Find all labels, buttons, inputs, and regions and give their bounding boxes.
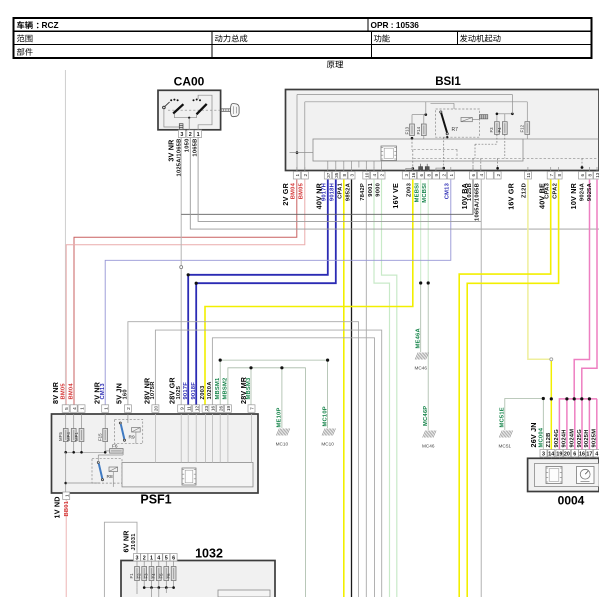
svg-text:1050: 1050 (185, 139, 191, 153)
svg-text:9: 9 (179, 407, 184, 410)
svg-text:7842P: 7842P (360, 183, 366, 201)
wire 9852A (351, 180, 353, 597)
CA00 right switch (193, 99, 195, 101)
0004 inner connector box (535, 464, 599, 487)
svg-text:MF1: MF1 (74, 432, 79, 441)
svg-text:MF5: MF5 (58, 432, 63, 441)
wire 1065A/1065B (480, 180, 482, 597)
svg-text:2: 2 (303, 174, 308, 177)
svg-text:F4: F4 (497, 127, 502, 133)
wire 1025 vertical CA00 pin3 to PSF1 pin9 (180, 137, 182, 405)
wire Z12D (528, 180, 551, 360)
svg-text:9025H: 9025H (584, 429, 590, 447)
PSF1 left drop to bottom pin (65, 452, 67, 492)
svg-text:7: 7 (549, 174, 554, 177)
svg-text:F3: F3 (489, 127, 494, 133)
wire MBSM2 / MBSM3 / ME10P (228, 368, 306, 597)
svg-text:9024M: 9024M (570, 429, 576, 448)
svg-text:23: 23 (204, 406, 209, 412)
relay R9 (115, 419, 143, 443)
svg-text:BM05: BM05 (60, 383, 66, 400)
wire CM13 (105, 180, 451, 405)
ground ME10P/MC10 (276, 429, 290, 436)
svg-text:1025A/1065B: 1025A/1065B (176, 139, 182, 177)
wire MC46P to ground (427, 283, 429, 430)
svg-text:8: 8 (557, 174, 562, 177)
svg-text:11: 11 (526, 172, 531, 177)
ground ME46A/MC46 (415, 353, 429, 360)
svg-text:13: 13 (595, 172, 599, 178)
svg-text:RCZ: RCZ (42, 20, 59, 30)
fuse F14 (421, 124, 426, 136)
wire J1031 (104, 522, 137, 597)
svg-text:2: 2 (496, 174, 501, 177)
wire CPA1 (343, 180, 345, 597)
svg-text:MC51: MC51 (499, 444, 512, 449)
wire BB01 (65, 499, 67, 597)
PSF1 bottom pin 1 (63, 492, 70, 500)
svg-text:R7: R7 (452, 127, 459, 133)
wire 9025A (582, 180, 597, 399)
wire 1050 (190, 137, 599, 230)
BSI1 internal rails (297, 94, 512, 96)
svg-text:MCBSI: MCBSI (422, 183, 428, 203)
svg-text:Z12B: Z12B (546, 433, 552, 448)
svg-text:3: 3 (404, 174, 409, 177)
PSF1 internal connector box (122, 463, 253, 487)
svg-text:14: 14 (548, 451, 554, 457)
svg-text:Z12D: Z12D (522, 183, 528, 198)
svg-text:1: 1 (80, 407, 85, 410)
wire MC51E / MC004 (505, 399, 544, 431)
svg-text:4: 4 (372, 174, 377, 177)
svg-text:1025B: 1025B (467, 183, 473, 201)
wire 1065B (198, 137, 481, 222)
svg-text:9018F: 9018F (191, 382, 197, 400)
svg-text:8V NR: 8V NR (51, 381, 60, 404)
svg-text:6: 6 (580, 174, 585, 177)
svg-text:F2: F2 (136, 573, 141, 579)
relay R7 (436, 109, 480, 137)
svg-text:10V NR: 10V NR (569, 182, 578, 209)
svg-text:16V GR: 16V GR (506, 182, 515, 209)
svg-text:20: 20 (154, 406, 159, 412)
svg-text:MBSM1: MBSM1 (215, 377, 221, 400)
wire Z12B (550, 359, 552, 449)
svg-text:11: 11 (186, 406, 191, 411)
key symbol (221, 109, 230, 112)
svg-text:1V ND: 1V ND (53, 496, 62, 518)
ground MC51E/MC51 (499, 431, 513, 438)
svg-text:F4: F4 (151, 573, 156, 579)
svg-text:1: 1 (64, 494, 69, 497)
svg-text:MBSM2: MBSM2 (223, 378, 229, 400)
0004 gauge symbol (577, 467, 595, 484)
svg-text:1: 1 (449, 174, 454, 177)
svg-text:F13: F13 (404, 126, 409, 134)
svg-text:MC51E: MC51E (500, 407, 506, 427)
svg-text:6: 6 (471, 174, 476, 177)
inline connector circles (180, 266, 183, 269)
svg-text:2: 2 (126, 407, 131, 410)
svg-text:6: 6 (573, 451, 576, 457)
svg-text:9018H: 9018H (330, 183, 336, 201)
BSI1 solid rail right (523, 138, 599, 140)
svg-text:5: 5 (64, 407, 69, 410)
svg-text:CPA3: CPA3 (545, 182, 551, 198)
wire 7842P (365, 180, 367, 597)
svg-text:9000: 9000 (375, 183, 381, 197)
CA00 left switch (163, 106, 166, 109)
svg-text:6V NR: 6V NR (122, 530, 131, 553)
svg-text:Z003: Z003 (200, 385, 206, 400)
svg-text:26: 26 (218, 406, 223, 412)
relay R8 (92, 459, 122, 483)
svg-text:R9: R9 (129, 435, 135, 441)
CA00 pins (178, 130, 185, 138)
fuses MF5 MF4 MF1 F15 (63, 429, 68, 442)
svg-text:MEBSI: MEBSI (415, 183, 421, 203)
svg-text:MC10P: MC10P (322, 406, 328, 426)
wire CPA2 (467, 180, 558, 597)
wire 160 (128, 322, 359, 597)
svg-text:3: 3 (350, 174, 355, 177)
svg-text:F14: F14 (416, 126, 421, 134)
svg-text:MC10: MC10 (321, 442, 334, 447)
svg-text:16V VE: 16V VE (391, 183, 400, 209)
svg-text:R8: R8 (107, 474, 113, 480)
svg-text:ME46A: ME46A (415, 328, 421, 349)
svg-text:MC10: MC10 (276, 442, 289, 447)
svg-text:BM04: BM04 (68, 383, 74, 400)
svg-text:MC46P: MC46P (423, 406, 429, 426)
svg-text:9001: 9001 (368, 182, 374, 196)
svg-text:F12: F12 (520, 124, 525, 132)
svg-text:8: 8 (342, 174, 347, 177)
wire CPA3 (459, 180, 551, 597)
CA00 contact block above pin3 (179, 124, 183, 130)
svg-text:1065A/1065B: 1065A/1065B (475, 183, 481, 221)
svg-text:8: 8 (426, 174, 431, 177)
wire BM04 (74, 180, 297, 405)
svg-text:9025M: 9025M (592, 429, 598, 448)
ground MC46P/MC46 (423, 431, 437, 438)
svg-text:16: 16 (211, 406, 216, 412)
wire Z003 (205, 180, 413, 405)
wire 1020A (212, 338, 374, 597)
svg-text:9025A: 9025A (587, 182, 593, 201)
fuses F3 F4 (495, 122, 500, 135)
svg-text:BM04: BM04 (291, 182, 297, 199)
wire 9000 (382, 180, 397, 597)
svg-text:0004: 0004 (558, 494, 585, 508)
svg-text:CM13: CM13 (100, 383, 106, 400)
svg-text:F3: F3 (144, 573, 149, 579)
CA00 internal wires (164, 109, 179, 127)
svg-text:19: 19 (226, 406, 231, 412)
small component above MEBSI/MCBSI pins (419, 167, 423, 171)
0004 chip symbol (546, 467, 562, 484)
wire MBSM1 / MC10P (220, 360, 327, 428)
ground MC10P/MC10 (322, 429, 336, 436)
wire ME46A to ground (420, 283, 422, 352)
1032 fuses F1-F6 (136, 561, 138, 567)
fuse F12 (525, 122, 530, 135)
svg-text:Z003: Z003 (407, 182, 413, 197)
svg-text:F1: F1 (129, 573, 134, 579)
wire 8V NR supply vertical to PSF1 pin5 (64, 70, 66, 405)
title 原理 (327, 61, 343, 68)
svg-text:3V NR: 3V NR (167, 139, 176, 162)
wire 9017H/9017F (188, 180, 328, 405)
BSI1 dashed rail bottom (413, 157, 598, 159)
svg-text:4: 4 (595, 451, 598, 457)
CA00 mechanical dashed link (168, 109, 222, 111)
PSF1 pin drops into connector box (154, 414, 156, 463)
svg-text:4: 4 (479, 174, 484, 177)
svg-text:MF4: MF4 (66, 432, 71, 441)
svg-text:4: 4 (72, 407, 77, 410)
svg-text:37: 37 (326, 172, 331, 178)
svg-text:MBSM3: MBSM3 (246, 377, 252, 400)
svg-text:BB01: BB01 (64, 500, 70, 516)
svg-text:9017H: 9017H (322, 183, 328, 201)
BSI1 dashed drops to pins (496, 134, 498, 144)
svg-text:7: 7 (250, 407, 255, 410)
svg-text:BM05: BM05 (299, 182, 305, 199)
svg-text:6: 6 (419, 174, 424, 177)
wire 9024A (574, 180, 589, 399)
svg-text:F5: F5 (159, 573, 164, 579)
svg-text:1020A: 1020A (207, 381, 213, 400)
wire 9018H/9018F (196, 180, 336, 405)
svg-text:1: 1 (295, 174, 300, 177)
svg-text:9852A: 9852A (345, 182, 351, 201)
BSI1 small stubs / elbows at bottom (406, 168, 413, 171)
svg-text:16: 16 (411, 172, 416, 178)
svg-text:19: 19 (556, 451, 562, 457)
svg-text:2: 2 (380, 174, 385, 177)
svg-text:26V JN: 26V JN (529, 422, 538, 447)
BSI1 internal connector box (313, 139, 523, 161)
svg-text:9017F: 9017F (183, 382, 189, 400)
svg-text:9024A: 9024A (579, 182, 585, 201)
BSI1 pins (293, 172, 300, 180)
header table (14, 18, 592, 58)
svg-text:2V GR: 2V GR (281, 182, 290, 205)
svg-text:MC46: MC46 (414, 366, 427, 371)
PSF1 pin stubs to fuses (65, 414, 67, 429)
svg-text:CM13: CM13 (445, 182, 451, 199)
svg-text:3: 3 (542, 451, 545, 457)
svg-text:3: 3 (180, 132, 183, 138)
wire 1025B branch (181, 180, 473, 215)
pink bus with branches to 0004 (559, 399, 597, 450)
wire 1075R (155, 330, 381, 597)
svg-text:OPR : 10536: OPR : 10536 (371, 20, 420, 30)
svg-text:F6: F6 (166, 573, 171, 579)
svg-text:F15: F15 (98, 433, 103, 441)
svg-text:17: 17 (586, 451, 592, 457)
svg-text:35: 35 (334, 172, 339, 178)
svg-text:PSF1: PSF1 (140, 493, 171, 507)
svg-text:1065B: 1065B (193, 139, 199, 157)
PSF1 rail under fuses (65, 442, 67, 453)
PSF1 top pins (62, 405, 69, 413)
svg-text:12: 12 (194, 406, 199, 412)
svg-text:MC004: MC004 (538, 427, 544, 447)
svg-text:16: 16 (579, 451, 585, 457)
svg-text:BSI1: BSI1 (435, 76, 461, 88)
1032 internal sub-box (218, 590, 270, 597)
wire MCBSI (427, 180, 429, 284)
wire BM05 (66, 180, 305, 405)
svg-text:CA00: CA00 (174, 74, 205, 88)
svg-text:1: 1 (197, 132, 200, 138)
svg-text:2: 2 (441, 174, 446, 177)
svg-text:8: 8 (588, 174, 593, 177)
svg-text:9025G: 9025G (577, 429, 583, 448)
svg-text:1032: 1032 (195, 547, 223, 561)
wire 9001 (374, 180, 390, 597)
svg-text:2: 2 (189, 132, 192, 138)
svg-text:MC46: MC46 (422, 444, 435, 449)
BSI1 chip symbol (381, 146, 397, 161)
svg-text:J1031: J1031 (131, 533, 137, 551)
svg-text:1075R: 1075R (150, 381, 156, 400)
svg-text:CPA2: CPA2 (552, 183, 558, 199)
svg-text:10: 10 (365, 172, 370, 178)
svg-text:9024H: 9024H (562, 429, 568, 447)
svg-text:160: 160 (123, 389, 129, 399)
svg-text:1: 1 (103, 407, 108, 410)
svg-text:1025: 1025 (176, 385, 182, 399)
junction dots (187, 273, 190, 276)
svg-text:9: 9 (434, 174, 439, 177)
svg-text:CPA1: CPA1 (338, 182, 344, 198)
svg-text:20: 20 (564, 451, 570, 457)
wire MEBSI (420, 180, 422, 284)
fuse F13 (410, 124, 415, 136)
svg-text:9024G: 9024G (554, 429, 560, 448)
svg-text:ME10P: ME10P (277, 407, 283, 427)
BSI1 pin stubs (296, 167, 298, 172)
